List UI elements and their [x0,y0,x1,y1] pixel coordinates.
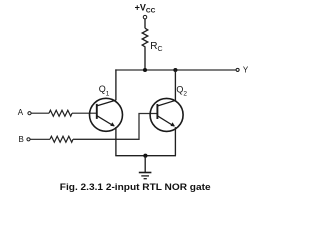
wire Q1 collector to rail [115,69,117,100]
svg-text:B: B [19,135,24,144]
wire B to resistor [30,138,50,140]
svg-text:A: A [18,108,24,117]
wire RC to rail [144,48,146,70]
wire VCC to RC [144,19,146,28]
wire ground stem [144,156,146,172]
wire resistor to Q1 base [72,112,97,114]
wire Q1 emitter to bottom rail [115,127,117,156]
wire B resistor to riser [73,114,157,140]
transistor Q1 [90,98,123,131]
ground [139,173,152,179]
terminal +VCC [143,15,147,19]
junction ground/bottom rail [143,154,147,158]
svg-text:Y: Y [243,66,249,75]
resistor RB [50,136,73,142]
wire Q2 collector to rail [174,69,176,100]
terminal Y [236,68,239,71]
terminal A [28,112,31,115]
wire A to resistor [31,112,49,114]
transistor Q2 [150,98,183,131]
terminal B [27,138,30,141]
resistor RA [49,110,72,116]
junction Q2 collector/rail [173,68,177,72]
wire Q2 emitter to bottom rail [174,127,176,156]
junction RC/rail [143,68,147,72]
resistor RC [142,28,148,48]
svg-text:Fig. 2.3.1 2-input RTL NOR gat: Fig. 2.3.1 2-input RTL NOR gate [60,182,211,192]
wire bottom rail [115,155,176,157]
wire top rail [115,69,236,71]
